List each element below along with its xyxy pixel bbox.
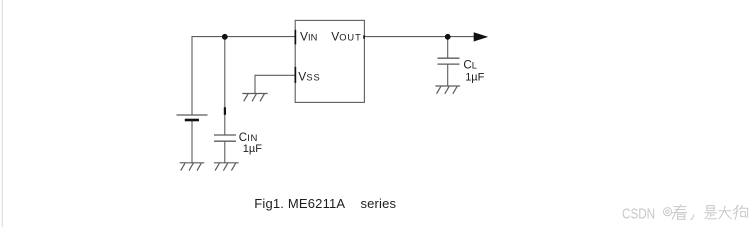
svg-text:Fig1. ME6211A series: Fig1. ME6211A series [254,196,396,211]
svg-text:CSDN: CSDN [622,205,655,222]
svg-text:VSS: VSS [298,70,320,84]
svg-text:VOUT: VOUT [331,30,362,44]
svg-text:CL: CL [463,60,476,72]
svg-text:1µF: 1µF [465,72,484,84]
svg-text:CIN: CIN [239,132,258,144]
svg-text:VIN: VIN [300,30,317,44]
svg-text:1µF: 1µF [243,143,262,155]
